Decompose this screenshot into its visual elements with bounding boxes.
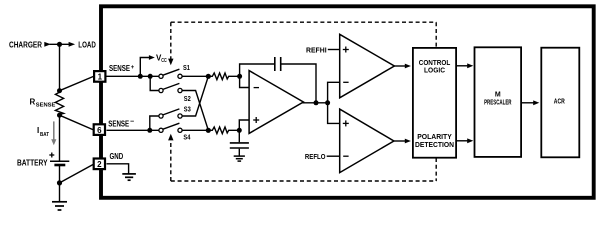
ground (GND pin): [122, 173, 136, 175]
dashed control-region box: top edge: [171, 21, 436, 23]
capacitor (plus input to ground): [230, 142, 249, 144]
dashed control line with up arrow to S4: [170, 141, 172, 182]
wire minus input: [240, 76, 250, 87]
wire comparator 1 output arrow: [394, 65, 405, 67]
svg-text:REFHI: REFHI: [306, 45, 327, 54]
switch S4: [159, 128, 163, 132]
wire feedback to output: [281, 64, 316, 103]
svg-text:+: +: [131, 65, 135, 71]
wire node to pin 2: [60, 164, 94, 183]
wire to S2: [150, 76, 159, 90]
wire REFLO to comparator: [327, 155, 340, 157]
wire junction down to Rsense: [59, 44, 61, 91]
wire Rsense top to pin 1: [60, 76, 94, 90]
wire feedback up: [240, 64, 275, 76]
svg-text:REFLO: REFLO: [305, 152, 326, 161]
resistor (top, node A to integrator): [208, 73, 239, 80]
node junction at charger/load: [57, 42, 62, 47]
wire comparator 2 output arrow: [394, 140, 406, 142]
wire polarity detection to M prescaler arrow: [457, 140, 468, 142]
comparator U3 (REFLO): [340, 109, 394, 173]
ground (integrator plus input): [234, 155, 245, 157]
switch S2: [159, 88, 163, 92]
wire capacitor to ground: [238, 149, 240, 156]
svg-text:PRESCALER: PRESCALER: [484, 100, 511, 107]
wire S2 to node B (crossover): [182, 91, 208, 131]
svg-text:CONTROL: CONTROL: [419, 60, 451, 67]
svg-text:6: 6: [97, 126, 102, 135]
node integrator plus input: [237, 128, 242, 133]
wire REFHI to comparator: [328, 49, 340, 51]
wire to S3: [150, 116, 159, 130]
resistor RSENSE: [55, 91, 63, 116]
capacitor C (integrator feedback): [274, 57, 276, 71]
svg-text:2: 2: [97, 160, 102, 169]
svg-text:BATTERY: BATTERY: [17, 159, 48, 168]
svg-text:S1: S1: [183, 63, 190, 72]
wire charger to load: [50, 43, 70, 45]
svg-text:DETECTION: DETECTION: [415, 142, 454, 149]
node comparator tap: [325, 100, 330, 105]
battery plus sign: [49, 154, 54, 156]
svg-text:SENSE: SENSE: [36, 102, 56, 108]
node S3 branch: [147, 128, 152, 133]
resistor (bottom, node B to integrator): [208, 127, 239, 134]
svg-text:I: I: [37, 126, 39, 135]
wire Rsense bottom to pin 6: [60, 115, 94, 130]
wire to comparator 2 plus: [328, 103, 340, 124]
svg-text:LOAD: LOAD: [78, 40, 96, 49]
node bottom of Rsense: [57, 113, 62, 118]
wire S4 to node B: [182, 129, 208, 131]
IBAT current arrow: [53, 121, 55, 140]
node integrator minus input: [237, 74, 242, 79]
svg-text:SENSE: SENSE: [108, 120, 130, 129]
svg-text:−: −: [130, 118, 134, 125]
dashed box bottom edge: [171, 180, 436, 182]
wire pin 2 to ground: [107, 164, 129, 174]
wire integrator output: [302, 102, 328, 104]
wire S3 to node A (crossover): [182, 76, 208, 116]
svg-text:BAT: BAT: [40, 132, 49, 138]
node VCC branch: [138, 74, 143, 79]
node battery/ground/pin2: [57, 180, 62, 185]
wire S1 to node A: [182, 75, 208, 77]
svg-text:CHARGER: CHARGER: [9, 40, 42, 49]
node top of Rsense: [57, 88, 62, 93]
svg-text:LOGIC: LOGIC: [424, 67, 445, 74]
wire node to ground: [59, 183, 61, 202]
pin 1 box: [94, 71, 105, 82]
pin 2 box: [94, 159, 105, 170]
dashed control line with down arrow to S1: [170, 22, 172, 59]
comparator U2 (REFHI): [340, 34, 395, 98]
SENSE+ rail: [107, 75, 160, 77]
svg-text:1: 1: [98, 73, 103, 82]
SENSE- rail: [107, 129, 160, 131]
wire M prescaler to ACR arrow: [522, 102, 534, 104]
VCC arrowhead: [149, 55, 155, 60]
control logic / polarity detection box: [413, 48, 456, 158]
wire battery to ground node: [59, 166, 61, 183]
svg-text:POLARITY: POLARITY: [417, 134, 452, 141]
svg-text:CC: CC: [161, 58, 167, 64]
op-amp U1 integrator: [249, 71, 303, 134]
dashed box right vertical (top, into control logic box): [435, 22, 437, 47]
pin 6 box: [94, 124, 105, 135]
node feedback tap: [314, 100, 319, 105]
svg-text:S2: S2: [184, 94, 191, 103]
wire plus input: [239, 120, 249, 130]
switch S3: [159, 114, 163, 118]
load arrowhead: [69, 42, 76, 47]
ACR box: [541, 48, 579, 158]
wire Rsense to battery: [59, 115, 61, 161]
svg-text:GND: GND: [110, 152, 124, 161]
wire plus node to filter capacitor: [238, 130, 240, 142]
node B: [206, 128, 211, 133]
svg-text:S4: S4: [183, 133, 191, 142]
wire to comparator 1 minus: [328, 82, 340, 103]
ground (battery): [52, 201, 67, 203]
node A: [206, 74, 211, 79]
wire VCC branch: [140, 58, 149, 77]
dashed box right vertical (bottom, from control logic box): [435, 158, 437, 181]
svg-text:M: M: [495, 92, 501, 99]
svg-text:R: R: [30, 98, 36, 107]
svg-text:SENSE: SENSE: [109, 64, 131, 73]
svg-text:ACR: ACR: [554, 98, 565, 105]
IC outline box: [101, 6, 594, 198]
wire control logic to M prescaler arrow: [457, 65, 468, 67]
node S2 branch: [148, 74, 153, 79]
switch S1: [159, 74, 163, 78]
charger arrowhead: [44, 42, 51, 47]
battery symbol: [50, 160, 69, 162]
M prescaler box: [475, 47, 522, 157]
svg-text:S3: S3: [184, 105, 191, 114]
